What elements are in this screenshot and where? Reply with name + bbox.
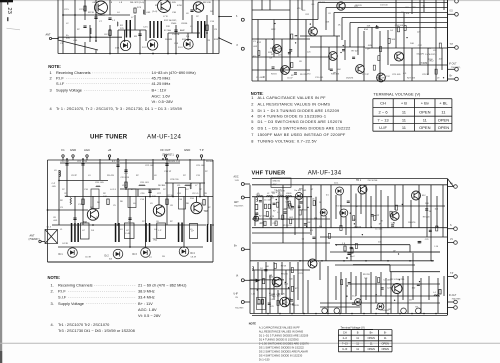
svg-text:33K: 33K [299, 189, 303, 191]
svg-text:3: 3 [251, 108, 253, 113]
svg-text:7~13: 7~13 [342, 342, 348, 346]
svg-text:D1 4 TUNING DIODE IS 1S2339G: D1 4 TUNING DIODE IS 1S2339G [259, 337, 299, 341]
svg-text:Vt: Vt [236, 275, 239, 278]
svg-text:AGC: AGC [84, 148, 90, 152]
svg-text:R9 220: R9 220 [363, 274, 371, 276]
svg-text:10K: 10K [103, 196, 107, 198]
svg-text:C2 5: C2 5 [64, 9, 69, 11]
svg-text:33K: 33K [294, 36, 298, 38]
svg-text:C1 .005: C1 .005 [264, 200, 272, 202]
svg-text:C21 .0016: C21 .0016 [77, 161, 88, 163]
svg-text:R8 3.9K: R8 3.9K [203, 2, 211, 4]
svg-text:1S2076: 1S2076 [408, 222, 416, 224]
svg-text:75&#937;: 75&#937; [451, 67, 461, 69]
svg-text:IF 2SA: IF 2SA [164, 29, 171, 32]
svg-text:DS 1 SWITCHING DIODES IN 1S22: DS 1 SWITCHING DIODES IN 1S2222 [259, 345, 305, 349]
svg-text:AGC: AGC [273, 183, 278, 186]
svg-text:B+ : 11V: B+ : 11V [152, 87, 167, 92]
svg-text:8.2 .004: 8.2 .004 [112, 161, 121, 163]
svg-text:R9 220: R9 220 [257, 304, 265, 306]
svg-text:10K: 10K [325, 22, 329, 24]
svg-text:C1 .005: C1 .005 [375, 229, 383, 231]
svg-text:C5 47: C5 47 [287, 78, 293, 80]
svg-text:R9 220: R9 220 [300, 74, 308, 76]
svg-text:R27 10K: R27 10K [407, 78, 416, 80]
svg-text:OPEN: OPEN [419, 125, 430, 130]
svg-text:AMP: AMP [180, 29, 185, 32]
svg-text:33K: 33K [425, 203, 429, 205]
svg-text:10K: 10K [337, 69, 341, 71]
svg-text:DS 4 SWITCHING DIODE IN 1S223: DS 4 SWITCHING DIODE IN 1S2230 [259, 353, 303, 357]
svg-text:TERMINAL VOLTAGE (V): TERMINAL VOLTAGE (V) [373, 92, 421, 97]
svg-text:(1+0): (1+0) [152, 11, 157, 13]
svg-text:R9 220: R9 220 [423, 216, 431, 218]
svg-text:Dt 1~150: Dt 1~150 [259, 357, 270, 361]
svg-text:C9 1.5: C9 1.5 [192, 193, 199, 195]
svg-text:1S2076: 1S2076 [346, 78, 354, 80]
svg-text:R21 470: R21 470 [377, 78, 386, 80]
svg-text:1: 1 [50, 70, 52, 75]
svg-text:3: 3 [50, 87, 52, 92]
svg-text:B+ : 11V: B+ : 11V [138, 301, 153, 306]
svg-text:1S2076: 1S2076 [354, 227, 362, 229]
svg-text:21 ~ 69 ch (470 ~ 862 MHz): 21 ~ 69 ch (470 ~ 862 MHz) [138, 283, 187, 288]
svg-text:VHF TUNER: VHF TUNER [252, 170, 286, 176]
svg-text:TR2: TR2 [153, 239, 158, 242]
svg-text:(75&#937;): (75&#937;) [162, 154, 174, 157]
svg-text:R9 220: R9 220 [281, 274, 289, 276]
svg-text:Dt 4: Dt 4 [191, 252, 196, 255]
svg-text:10K: 10K [270, 48, 274, 50]
svg-text:2~6: 2~6 [343, 336, 348, 340]
svg-text:C1 .005: C1 .005 [256, 196, 264, 198]
svg-text:R6 3B0: R6 3B0 [158, 185, 166, 187]
svg-text:Receiving Channels: Receiving Channels [56, 70, 91, 75]
svg-text:2: 2 [251, 101, 253, 106]
svg-text:D1 1: D1 1 [115, 48, 120, 50]
svg-text:R3 1K: R3 1K [271, 74, 277, 76]
svg-text:33K: 33K [283, 209, 287, 211]
svg-text:C+30: C+30 [125, 233, 131, 235]
svg-text:D1 3: D1 3 [178, 47, 183, 49]
svg-text:2.: 2. [51, 289, 54, 294]
svg-text:OPEN: OPEN [438, 125, 449, 130]
svg-text:C23 .005: C23 .005 [392, 74, 401, 76]
svg-text:B-: B- [384, 331, 387, 335]
svg-text:6: 6 [251, 125, 253, 130]
svg-text:41.25 MHz: 41.25 MHz [152, 81, 171, 86]
svg-text:C8 R6: C8 R6 [181, 23, 188, 25]
svg-text:ANT: ANT [46, 34, 51, 37]
svg-text:D1 ~ D3 SWITCHING DIODES ARE 1: D1 ~ D3 SWITCHING DIODES ARE 1S2076 [258, 119, 343, 124]
svg-text:(75&#937;): (75&#937;) [29, 239, 41, 241]
svg-text:Vt : 0.5~28V: Vt : 0.5~28V [152, 99, 174, 104]
svg-text:Dt 2: Dt 2 [105, 255, 110, 258]
svg-text:+ BL: + BL [439, 101, 448, 106]
svg-text:C29 3P: C29 3P [422, 74, 430, 76]
svg-text:B+: B+ [370, 331, 374, 335]
svg-text:B: B [357, 331, 359, 335]
svg-text:Dt 4 TUNING DIODE IS 1S2339G-1: Dt 4 TUNING DIODE IS 1S2339G-1 [258, 113, 327, 118]
svg-text:C5 39: C5 39 [85, 257, 92, 259]
svg-text:U-IF: U-IF [234, 294, 239, 296]
svg-text:7: 7 [251, 132, 253, 137]
svg-text:C2 5: C2 5 [79, 9, 84, 11]
svg-text:R12 4.7K: R12 4.7K [283, 225, 292, 227]
svg-text:C4 5: C4 5 [143, 27, 148, 29]
svg-text:C17 2P: C17 2P [362, 74, 370, 76]
svg-text:7 ~ 13: 7 ~ 13 [377, 117, 389, 122]
svg-text:23: 23 [6, 7, 12, 13]
svg-text:Vt: 0.5 ~ 28V: Vt: 0.5 ~ 28V [138, 313, 161, 318]
svg-text:R9 220: R9 220 [268, 288, 276, 290]
svg-text:C34 100: C34 100 [380, 5, 389, 7]
svg-text:+B: +B [108, 148, 112, 152]
svg-text:AGC: 1.6V: AGC: 1.6V [152, 94, 171, 99]
svg-text:AGC: AGC [234, 176, 239, 179]
svg-text:OPEN: OPEN [382, 342, 389, 346]
svg-text:U-IF: U-IF [379, 125, 387, 130]
svg-text:L7 R: L7 R [163, 16, 168, 18]
svg-text:10K: 10K [410, 43, 414, 45]
svg-text:C1 .005: C1 .005 [256, 77, 264, 79]
svg-text:R12 4.7K: R12 4.7K [272, 192, 281, 194]
svg-text:R9 B20 1.5K: R9 B20 1.5K [168, 161, 181, 163]
svg-text:ANT: ANT [234, 201, 239, 204]
svg-text:C17 2E: C17 2E [172, 34, 180, 36]
svg-text:1S2076: 1S2076 [416, 54, 424, 56]
svg-text:TR 1: TR 1 [356, 180, 362, 182]
svg-text:R2 1K: R2 1K [88, 12, 95, 14]
svg-text:2: 2 [50, 76, 52, 81]
svg-text:CH: CH [380, 101, 386, 106]
svg-text:3B 004: 3B 004 [206, 161, 214, 163]
svg-text:1500PF MAY BE USED INSTEAD OF: 1500PF MAY BE USED INSTEAD OF 2200PF [258, 132, 346, 137]
svg-text:Supply Voltage: Supply Voltage [58, 301, 84, 306]
svg-text:C20 .001: C20 .001 [140, 182, 149, 184]
svg-text:1S2076: 1S2076 [419, 63, 427, 65]
svg-text:AGC: 1.8V: AGC: 1.8V [138, 307, 157, 312]
svg-text:T.P: T.P [450, 273, 454, 275]
svg-text:GND: GND [70, 148, 76, 152]
svg-text:P.I.F: P.I.F [58, 289, 66, 294]
svg-text:10K: 10K [160, 9, 164, 11]
svg-text:C20 .001: C20 .001 [61, 161, 70, 163]
svg-text:D1 2: D1 2 [142, 47, 147, 49]
svg-text:R7 1K: R7 1K [167, 195, 174, 197]
svg-text:Dt 3: Dt 3 [133, 253, 138, 256]
svg-text:R12 3&#937;: R12 3&#937; [164, 20, 177, 22]
svg-text:IF-OuT: IF-OuT [449, 295, 457, 297]
svg-text:ANT: ANT [30, 235, 35, 238]
svg-text:NOTE:: NOTE: [48, 64, 61, 69]
svg-text:2SC1070E: 2SC1070E [368, 180, 379, 182]
svg-text:2~1.50 SWITCHING DIODES ARE 1: 2~1.50 SWITCHING DIODES ARE 1S2076 [259, 341, 309, 345]
svg-text:R3 470: R3 470 [107, 175, 115, 177]
svg-text:CH: CH [343, 331, 347, 335]
svg-text:T P: T P [450, 44, 454, 46]
svg-text:10K: 10K [391, 39, 395, 41]
svg-text:1.: 1. [51, 283, 54, 288]
svg-text:22K: 22K [65, 196, 69, 198]
svg-text:OPEN: OPEN [382, 347, 389, 351]
svg-text:C4 39: C4 39 [62, 243, 69, 245]
svg-text:DS 2 SWITCHING DIODES ARE PLA: DS 2 SWITCHING DIODES ARE PLANAR [259, 349, 308, 353]
svg-text:3.: 3. [51, 301, 54, 306]
svg-text:Supply Voltage: Supply Voltage [56, 87, 82, 92]
svg-text:4700: 4700 [177, 5, 183, 7]
svg-text:Dt 1: Dt 1 [59, 253, 64, 256]
svg-text:FF OUT: FF OUT [160, 148, 170, 152]
svg-text:C29 C30: C29 C30 [170, 179, 179, 181]
svg-text:R7 220: R7 220 [352, 50, 360, 52]
svg-text:C13 1P: C13 1P [164, 171, 172, 173]
svg-text:OPEN: OPEN [368, 347, 375, 351]
svg-text:Dt 1 ~ Dt 3 TUNING DIODES ARE: Dt 1 ~ Dt 3 TUNING DIODES ARE 1S2209 [258, 108, 340, 113]
svg-text:C23 C24: C23 C24 [121, 177, 130, 179]
svg-text:10K: 10K [309, 31, 313, 33]
svg-text:C1 .005: C1 .005 [383, 279, 391, 281]
svg-text:DB~3C9 (1+0): DB~3C9 (1+0) [130, 2, 144, 4]
svg-text:1S2076: 1S2076 [291, 305, 299, 307]
svg-text:C8 49: C8 49 [191, 257, 197, 259]
svg-text:2 ~ 6: 2 ~ 6 [379, 109, 389, 114]
svg-text:U-IF: U-IF [342, 347, 347, 351]
svg-text:D1 1~D1 3 TUNING DIODES ARE 1: D1 1~D1 3 TUNING DIODES ARE 1S2209 [259, 333, 309, 337]
svg-text:33K: 33K [435, 227, 439, 229]
svg-text:IF OUT: IF OUT [449, 64, 457, 66]
svg-text:10K: 10K [278, 48, 282, 50]
svg-text:S.I.F: S.I.F [56, 81, 65, 86]
svg-text:75&#937;: 75&#937; [235, 308, 244, 310]
svg-text:TR1: TR1 [83, 221, 88, 224]
svg-text:UHF TUNER: UHF TUNER [90, 133, 128, 140]
svg-text:C+7&#937;: C+7&#937; [425, 54, 436, 56]
svg-text:R7 220: R7 220 [318, 2, 325, 4]
svg-text:C11 .001: C11 .001 [315, 77, 324, 79]
svg-text:C1 .005: C1 .005 [273, 294, 281, 296]
svg-text:OPEN: OPEN [419, 109, 430, 114]
svg-text:33.4 MHz: 33.4 MHz [138, 295, 155, 300]
svg-text:10K: 10K [406, 13, 410, 15]
svg-text:NOTE:: NOTE: [48, 275, 61, 280]
svg-text:TUNING VOLTAGE: 0.7~22.5V: TUNING VOLTAGE: 0.7~22.5V [258, 138, 317, 143]
svg-text:C25 .001: C25 .001 [196, 165, 205, 167]
svg-text:OPEN: OPEN [438, 117, 449, 122]
svg-text:1: 1 [251, 95, 253, 100]
svg-text:C34 100: C34 100 [395, 25, 404, 27]
svg-text:1N60: 1N60 [171, 23, 177, 25]
svg-text:10K: 10K [366, 25, 370, 27]
svg-text:T P: T P [199, 148, 203, 152]
svg-text:C-P: C-P [52, 183, 56, 185]
svg-text:33K: 33K [269, 218, 273, 220]
svg-text:DS 1 ~ DS 3 SWITCHING DIODES A: DS 1 ~ DS 3 SWITCHING DIODES ARE 1S2222 [258, 125, 351, 130]
svg-text:Tr1 : 2SC1070 Tr2 : 2SC1070: Tr1 : 2SC1070 Tr2 : 2SC1070 [58, 322, 110, 327]
svg-text:D5 WR: D5 WR [165, 39, 172, 41]
svg-text:ALL RESISTANCE VALUES IN OHMS: ALL RESISTANCE VALUES IN OHMS [259, 329, 303, 333]
svg-text:Terminal Voltage (V): Terminal Voltage (V) [341, 326, 365, 330]
svg-text:S.I.F: S.I.F [58, 295, 67, 300]
svg-text:14~83 ch (470~890 MHz): 14~83 ch (470~890 MHz) [152, 70, 197, 75]
svg-text:+ Bv: + Bv [421, 101, 429, 106]
svg-text:C20 .005: C20 .005 [95, 182, 104, 184]
svg-text:C6 1P: C6 1P [104, 34, 111, 36]
svg-text:GND: GND [184, 148, 190, 152]
svg-text:38.9 MHz: 38.9 MHz [138, 289, 155, 294]
svg-text:+ B: + B [401, 101, 407, 106]
svg-text:R15 33K: R15 33K [331, 74, 340, 76]
svg-text:22K: 22K [166, 26, 170, 28]
svg-text:8: 8 [251, 138, 253, 143]
svg-text:AM-UF-134: AM-UF-134 [308, 171, 342, 177]
svg-text:AM-UF-124: AM-UF-124 [147, 133, 182, 140]
svg-text:Receiving Channels: Receiving Channels [58, 283, 93, 288]
svg-text:C22 .001: C22 .001 [145, 165, 154, 167]
svg-text:Tr 1 : 2SC1070, Tr 2 : 2SC1070: Tr 1 : 2SC1070, Tr 2 : 2SC1070, Tr 3 : 2… [56, 107, 182, 111]
svg-text:R5 .005: R5 .005 [148, 189, 156, 191]
svg-text:4.: 4. [51, 322, 54, 327]
svg-text:5: 5 [251, 119, 253, 124]
svg-text:33K: 33K [412, 7, 416, 9]
svg-text:Tr3 : 2SC1730 Dt1 ~ Dt3 : 1SV: Tr3 : 2SC1730 Dt1 ~ Dt3 : 1SV59 or 1S220… [58, 328, 135, 333]
svg-text:ALL RESISTANCE VALUES IN OHMS: ALL RESISTANCE VALUES IN OHMS [258, 101, 331, 106]
svg-text:ALL CAPACITANCE VALUES IN PF: ALL CAPACITANCE VALUES IN PF [258, 95, 327, 100]
svg-text:75&#937;: 75&#937; [234, 206, 244, 208]
svg-text:F1: F1 [61, 148, 65, 152]
svg-text:1.6V: 1.6V [235, 180, 240, 182]
svg-text:75&#937;: 75&#937; [452, 299, 462, 301]
svg-text:OPEN: OPEN [368, 336, 375, 340]
svg-text:NOTE: NOTE [249, 321, 256, 325]
svg-text:C3 .005: C3 .005 [168, 2, 176, 4]
svg-text:GND B1: GND B1 [273, 181, 281, 183]
svg-text:A.1 CAPACITANCE VALUES IN PF: A.1 CAPACITANCE VALUES IN PF [259, 325, 300, 329]
svg-text:22K: 22K [152, 196, 156, 198]
svg-text:C9 2P: C9 2P [71, 175, 78, 177]
